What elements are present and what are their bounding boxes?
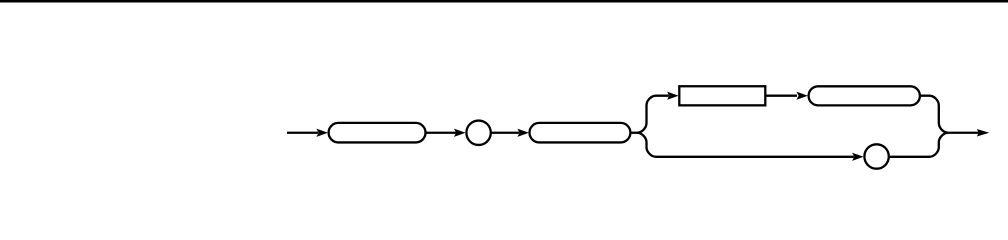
arrowhead into box3 bbox=[796, 92, 808, 100]
nonterminal rect bbox=[679, 86, 765, 105]
arrowhead into circle1 bbox=[454, 129, 466, 137]
node circle2 bbox=[864, 144, 888, 168]
arrowhead into circle2 bbox=[852, 153, 864, 161]
wire: split down to bottom branch bbox=[637, 133, 854, 157]
arrowhead into rect bbox=[667, 92, 679, 100]
arrowhead exit bbox=[977, 129, 990, 137]
page background bbox=[0, 0, 1008, 171]
terminal box2 bbox=[530, 123, 631, 143]
terminal box3 bbox=[809, 86, 920, 105]
wire: split up to top branch bbox=[637, 96, 669, 133]
node circle1 bbox=[466, 121, 490, 145]
arrowhead into box2 bbox=[517, 129, 529, 137]
wire: entry line bbox=[287, 132, 318, 134]
wire: circle1 to box2 bbox=[491, 132, 520, 134]
wire: box3 down to merge bbox=[920, 96, 948, 133]
wire: exit line bbox=[948, 132, 979, 134]
top rule bbox=[0, 0, 1008, 3]
terminal box1 bbox=[329, 123, 426, 143]
wire: circle2 up to merge bbox=[889, 133, 949, 157]
arrowhead into box1 bbox=[316, 129, 328, 137]
wire: rect to box3 bbox=[765, 95, 797, 97]
wire: box2 to split bbox=[630, 132, 637, 134]
wire: box1 to circle1 bbox=[426, 132, 457, 134]
